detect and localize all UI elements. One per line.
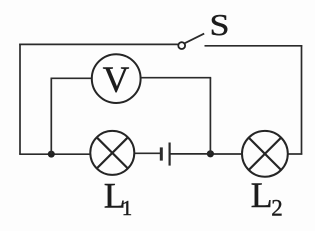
wire: outer left vertical [19, 44, 21, 155]
switch S pivot circle [178, 42, 185, 49]
svg-text:2: 2 [271, 195, 283, 220]
wire: node B to lamp L2 [210, 153, 242, 155]
switch S lever [185, 34, 204, 44]
svg-text:1: 1 [122, 196, 133, 220]
voltmeter V circle [92, 54, 141, 103]
wire: outer right vertical [301, 45, 303, 154]
wire: bottom horizontal (outer left corner to lamp L1) [19, 153, 90, 155]
wire: node A up to voltmeter branch [50, 78, 52, 154]
lamp L2 circle [242, 131, 288, 177]
lamp L2 cross [249, 138, 281, 170]
wire: top horizontal (right of switch) [205, 45, 303, 47]
svg-text:V: V [103, 60, 130, 101]
svg-text:L: L [251, 175, 273, 215]
wire: battery to node B [171, 153, 211, 155]
node B (junction dot right) [207, 150, 214, 157]
battery cell: long plate (positive) [169, 143, 171, 166]
lamp L1 cross [97, 137, 128, 168]
battery cell: short plate (negative) [160, 147, 163, 160]
wire: voltmeter branch right vertical down to node B [209, 78, 211, 154]
wire: top horizontal (left of switch) [19, 43, 178, 45]
node A (junction dot left) [48, 151, 55, 158]
wire: voltmeter branch left horizontal [51, 77, 93, 79]
wire: lamp L1 to battery [134, 152, 160, 154]
lamp L1 circle [90, 131, 134, 175]
wire: voltmeter branch right horizontal [141, 77, 212, 79]
wire: stub from right vertical to lamp L2 [288, 153, 303, 155]
svg-text:S: S [209, 8, 229, 42]
